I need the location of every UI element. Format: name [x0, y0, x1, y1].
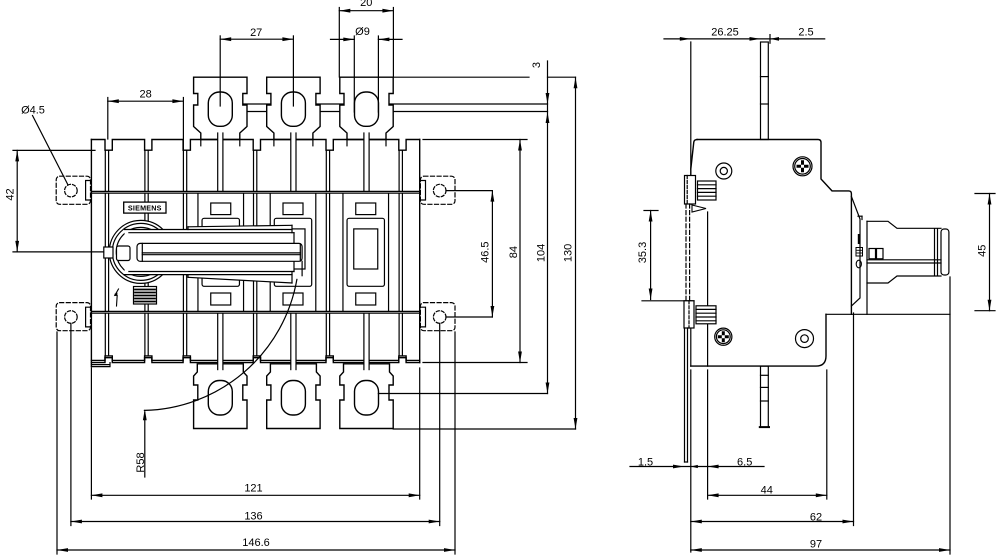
- svg-text:35.3: 35.3: [637, 242, 649, 263]
- svg-text:R58: R58: [135, 452, 147, 472]
- svg-text:45: 45: [977, 245, 989, 257]
- svg-text:20: 20: [360, 0, 372, 9]
- svg-text:28: 28: [139, 88, 151, 100]
- svg-text:1.5: 1.5: [638, 457, 653, 469]
- svg-text:146.6: 146.6: [242, 537, 270, 549]
- svg-text:44: 44: [761, 484, 773, 496]
- svg-text:27: 27: [250, 27, 262, 39]
- svg-text:SIEMENS: SIEMENS: [128, 204, 162, 213]
- svg-text:42: 42: [5, 188, 17, 200]
- svg-text:136: 136: [244, 511, 262, 523]
- svg-text:Ø9: Ø9: [355, 26, 370, 38]
- svg-text:121: 121: [244, 482, 262, 494]
- svg-text:3: 3: [531, 62, 543, 68]
- svg-text:26.25: 26.25: [711, 27, 739, 39]
- svg-text:130: 130: [562, 244, 574, 262]
- svg-text:84: 84: [508, 246, 520, 258]
- svg-text:Ø4.5: Ø4.5: [21, 105, 45, 117]
- svg-text:62: 62: [810, 511, 822, 523]
- svg-text:46.5: 46.5: [480, 241, 492, 262]
- svg-text:104: 104: [535, 244, 547, 262]
- svg-text:2.5: 2.5: [798, 27, 813, 39]
- svg-text:6.5: 6.5: [737, 457, 752, 469]
- svg-text:97: 97: [810, 538, 822, 550]
